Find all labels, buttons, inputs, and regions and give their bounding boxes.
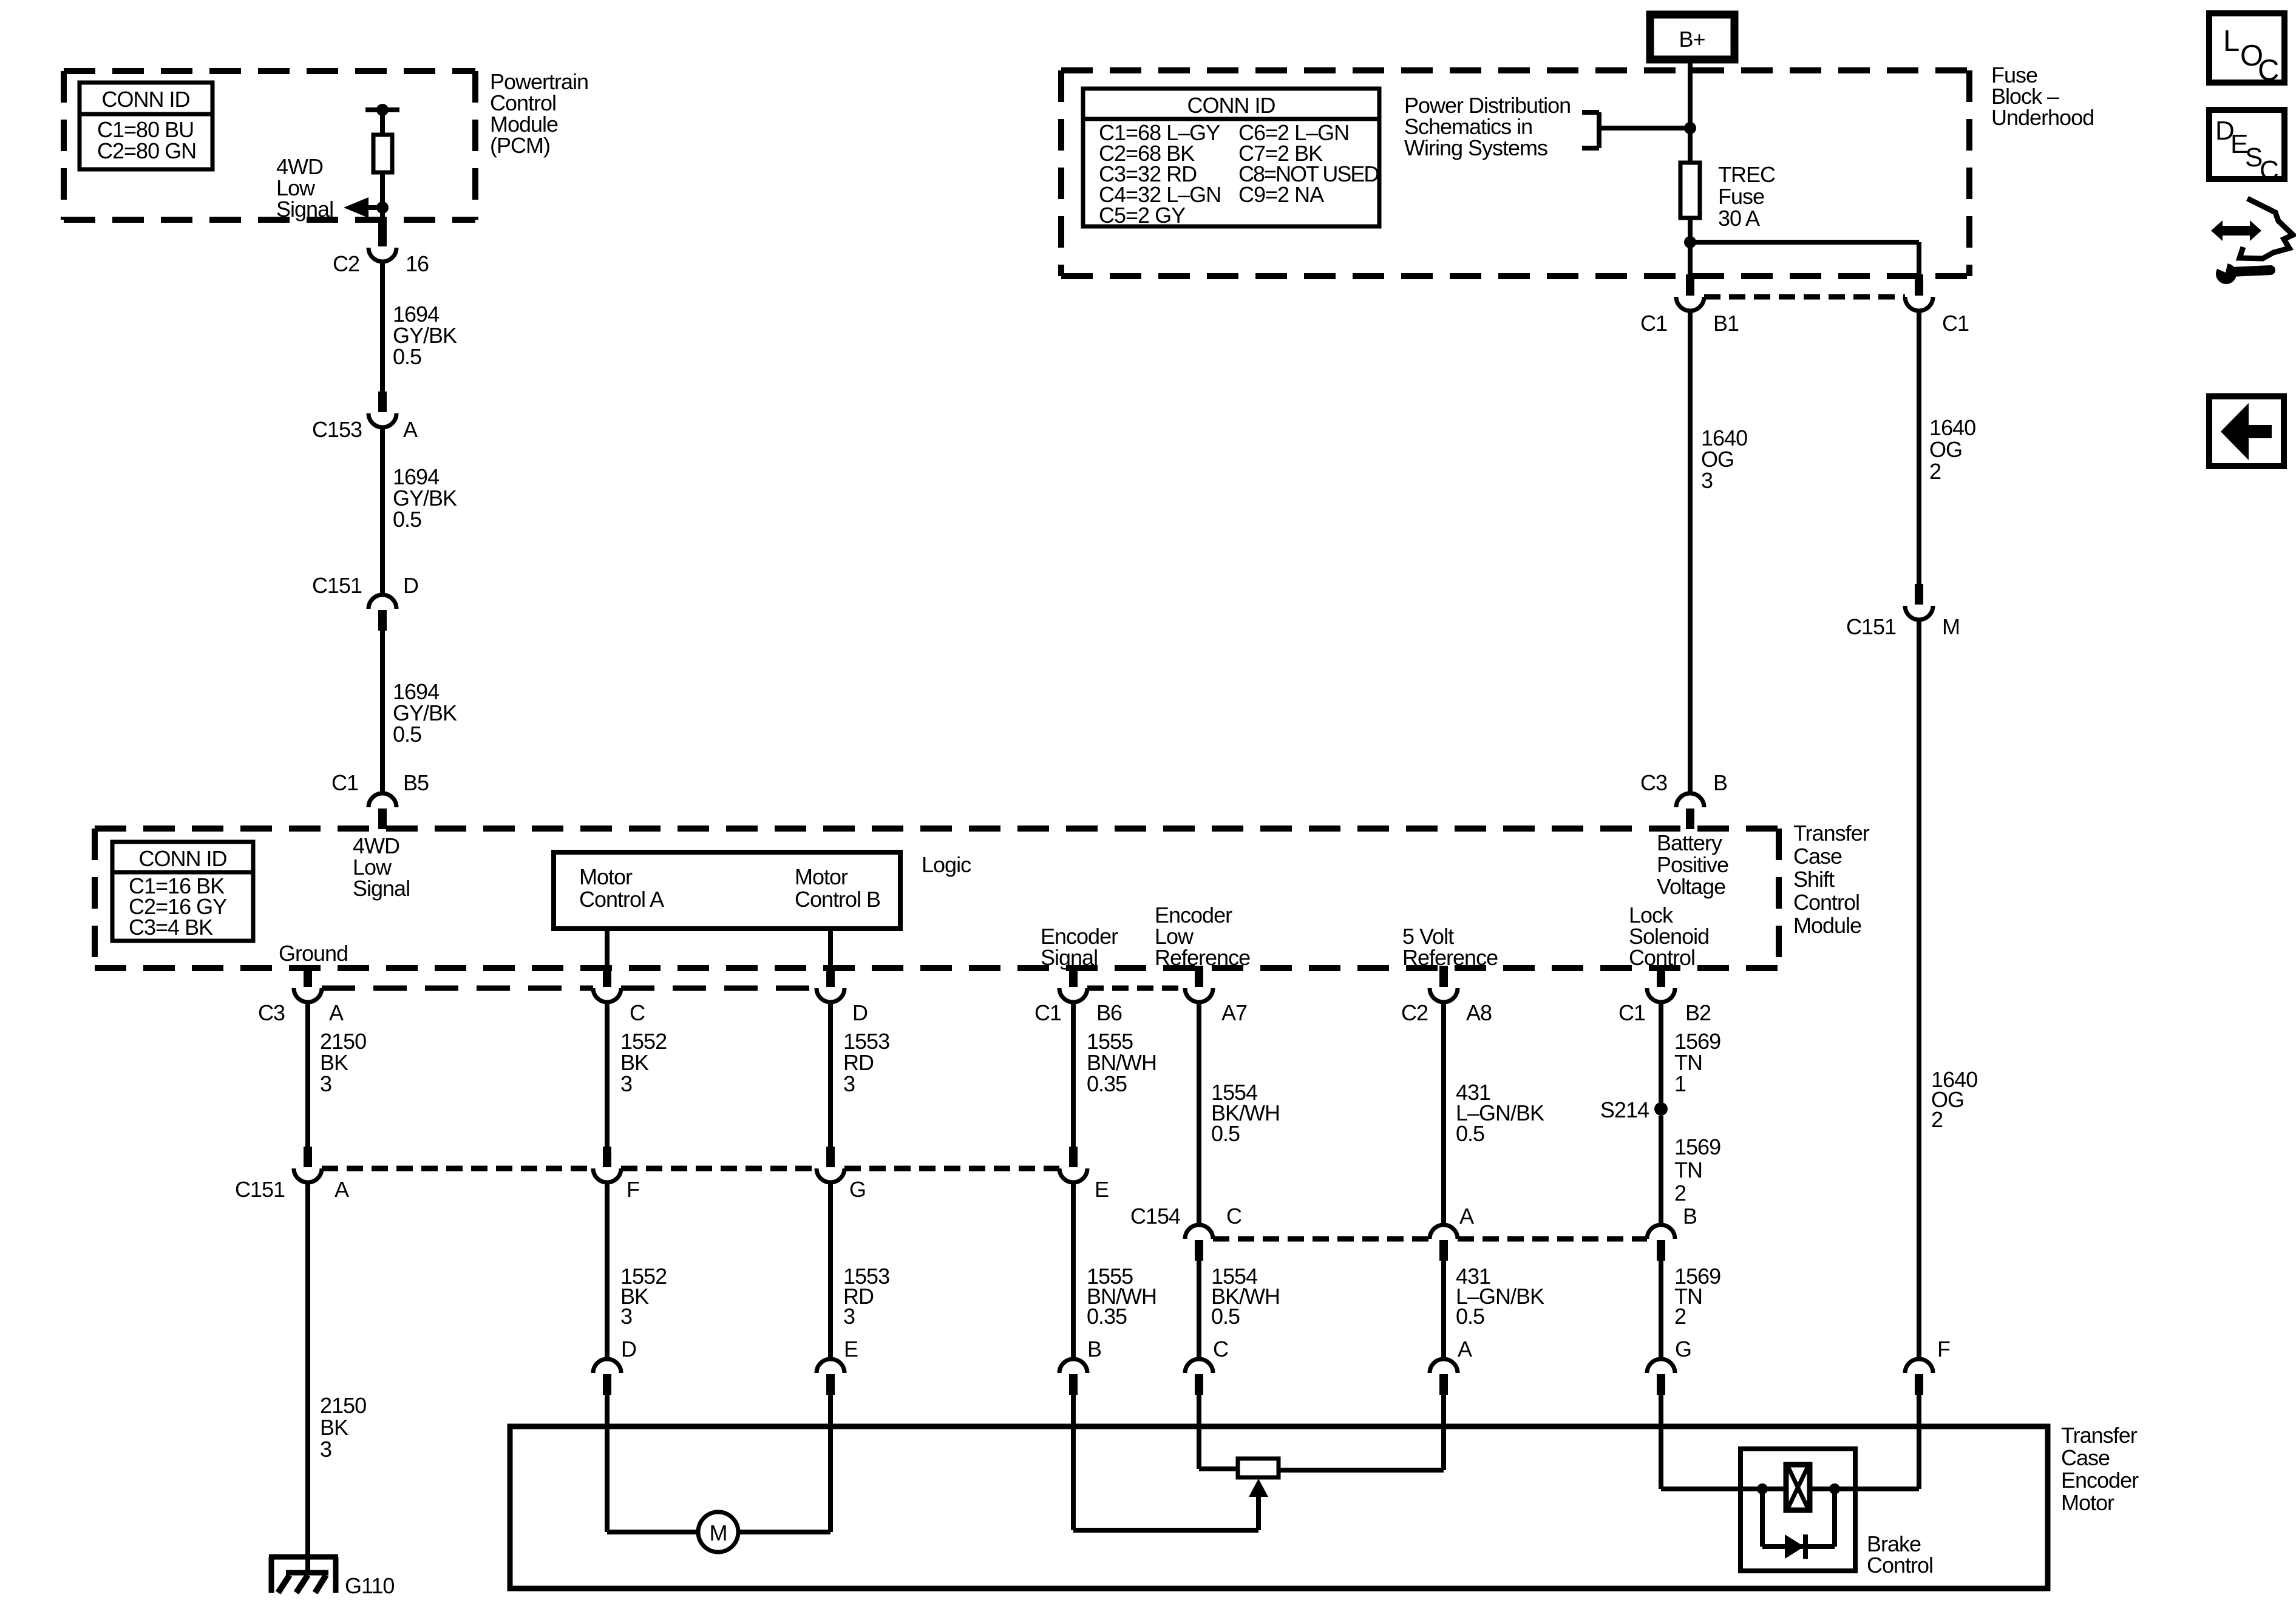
svg-text:CONN ID: CONN ID	[102, 87, 190, 112]
svg-text:D: D	[403, 573, 418, 598]
svg-text:C: C	[2260, 155, 2278, 185]
svg-text:Signal: Signal	[353, 876, 410, 901]
svg-text:3: 3	[620, 1304, 632, 1329]
svg-text:E: E	[1095, 1177, 1109, 1202]
svg-text:F: F	[627, 1177, 639, 1202]
svg-text:C: C	[630, 1000, 645, 1025]
svg-text:2150: 2150	[320, 1393, 366, 1418]
svg-text:Control A: Control A	[579, 887, 664, 912]
svg-text:Shift: Shift	[1793, 867, 1835, 892]
svg-text:3: 3	[843, 1304, 855, 1329]
svg-text:F: F	[1937, 1337, 1950, 1361]
svg-text:E: E	[844, 1337, 858, 1361]
svg-text:Control: Control	[1793, 890, 1860, 915]
svg-text:Motor: Motor	[2061, 1490, 2114, 1515]
svg-text:C: C	[1226, 1204, 1241, 1229]
svg-text:TREC: TREC	[1718, 162, 1775, 187]
svg-text:Case: Case	[1793, 844, 1842, 869]
svg-text:Signal: Signal	[276, 197, 333, 222]
svg-text:BK: BK	[320, 1415, 348, 1440]
svg-text:D: D	[852, 1000, 868, 1025]
svg-text:C154: C154	[1130, 1204, 1180, 1229]
svg-text:2: 2	[1674, 1304, 1686, 1329]
svg-text:C5=2 GY: C5=2 GY	[1099, 203, 1186, 228]
svg-text:B: B	[1087, 1337, 1101, 1361]
svg-text:B: B	[1713, 770, 1727, 795]
svg-text:30 A: 30 A	[1718, 206, 1760, 231]
svg-text:3: 3	[843, 1071, 855, 1096]
svg-text:16: 16	[406, 251, 429, 276]
svg-text:1: 1	[1674, 1071, 1686, 1096]
svg-text:S214: S214	[1600, 1097, 1649, 1122]
svg-text:C1: C1	[1942, 311, 1969, 336]
svg-text:C3: C3	[1640, 770, 1667, 795]
svg-text:Positive: Positive	[1657, 852, 1728, 877]
svg-text:TN: TN	[1674, 1158, 1702, 1182]
svg-text:Encoder: Encoder	[2061, 1468, 2139, 1493]
svg-text:0.5: 0.5	[1211, 1121, 1240, 1146]
svg-text:C2=80 GN: C2=80 GN	[97, 138, 196, 163]
svg-text:Motor: Motor	[795, 864, 848, 889]
svg-text:M: M	[710, 1520, 727, 1545]
svg-text:0.5: 0.5	[1211, 1304, 1240, 1329]
svg-text:0.5: 0.5	[393, 507, 421, 532]
svg-text:Battery: Battery	[1657, 830, 1722, 855]
svg-text:3: 3	[320, 1071, 331, 1096]
svg-text:C1: C1	[1640, 311, 1667, 336]
svg-text:C: C	[1213, 1337, 1228, 1361]
svg-text:A: A	[335, 1177, 349, 1202]
svg-text:A: A	[403, 417, 418, 442]
svg-text:Underhood: Underhood	[1991, 105, 2094, 130]
svg-text:0.5: 0.5	[393, 344, 421, 369]
svg-text:A: A	[329, 1000, 344, 1025]
svg-text:Reference: Reference	[1402, 945, 1498, 970]
svg-text:2: 2	[1674, 1181, 1686, 1205]
svg-text:Control B: Control B	[795, 887, 880, 912]
svg-text:C: C	[2258, 54, 2278, 87]
svg-text:0.35: 0.35	[1087, 1304, 1127, 1329]
svg-text:A: A	[1458, 1337, 1472, 1361]
svg-text:Logic: Logic	[922, 852, 971, 877]
svg-text:1569: 1569	[1674, 1134, 1720, 1159]
svg-text:B6: B6	[1096, 1000, 1122, 1025]
svg-text:B1: B1	[1713, 311, 1739, 336]
svg-text:Control: Control	[1867, 1553, 1933, 1578]
svg-text:Wiring Systems: Wiring Systems	[1404, 135, 1547, 160]
svg-text:C153: C153	[312, 417, 362, 442]
svg-text:Case: Case	[2061, 1445, 2110, 1470]
svg-text:C151: C151	[1846, 614, 1896, 639]
svg-text:3: 3	[1701, 468, 1713, 493]
svg-text:B5: B5	[403, 770, 429, 795]
svg-text:OG: OG	[1929, 437, 1962, 462]
svg-text:0.5: 0.5	[1456, 1121, 1484, 1146]
svg-text:Transfer: Transfer	[2061, 1423, 2138, 1448]
svg-text:C1: C1	[1618, 1000, 1645, 1025]
svg-text:C3: C3	[258, 1000, 285, 1025]
svg-text:C2: C2	[333, 251, 359, 276]
svg-text:B2: B2	[1685, 1000, 1711, 1025]
svg-text:Fuse: Fuse	[1718, 184, 1764, 209]
svg-text:C2: C2	[1401, 1000, 1428, 1025]
svg-text:2: 2	[1929, 459, 1941, 484]
svg-text:C1: C1	[331, 770, 358, 795]
svg-text:0.35: 0.35	[1087, 1071, 1127, 1096]
svg-text:(PCM): (PCM)	[490, 133, 550, 158]
svg-text:C3=4 BK: C3=4 BK	[129, 915, 213, 940]
svg-text:Module: Module	[1793, 913, 1861, 938]
svg-text:CONN ID: CONN ID	[139, 846, 227, 871]
svg-text:C1: C1	[1034, 1000, 1061, 1025]
svg-text:Voltage: Voltage	[1657, 874, 1725, 899]
svg-text:C151: C151	[235, 1177, 285, 1202]
svg-text:G110: G110	[345, 1573, 394, 1598]
svg-text:B+: B+	[1679, 27, 1705, 52]
svg-text:C151: C151	[312, 573, 362, 598]
svg-text:A: A	[1459, 1204, 1474, 1229]
svg-text:3: 3	[320, 1437, 331, 1462]
svg-text:A8: A8	[1466, 1000, 1492, 1025]
svg-text:M: M	[1942, 614, 1960, 639]
svg-text:C9=2 NA: C9=2 NA	[1238, 182, 1324, 207]
svg-text:G: G	[1675, 1337, 1691, 1361]
svg-text:1640: 1640	[1929, 415, 1975, 440]
svg-text:B: B	[1683, 1204, 1697, 1229]
svg-text:2: 2	[1931, 1107, 1943, 1132]
svg-text:Motor: Motor	[579, 864, 633, 889]
svg-text:Ground: Ground	[279, 941, 348, 966]
svg-text:D: D	[621, 1337, 636, 1361]
svg-text:0.5: 0.5	[393, 722, 421, 747]
svg-text:3: 3	[620, 1071, 632, 1096]
svg-text:G: G	[849, 1177, 866, 1202]
svg-text:Transfer: Transfer	[1793, 821, 1870, 846]
svg-text:0.5: 0.5	[1456, 1304, 1484, 1329]
svg-text:CONN ID: CONN ID	[1187, 93, 1275, 118]
svg-text:A7: A7	[1221, 1000, 1247, 1025]
svg-text:L: L	[2223, 25, 2239, 58]
